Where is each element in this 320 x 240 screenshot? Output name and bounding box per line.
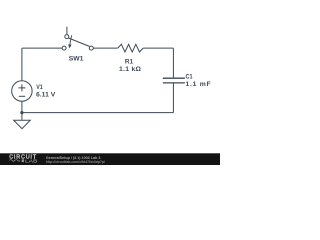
footer bar [0,153,220,165]
switch arrow head [68,44,72,48]
wire V1 bottom to junction [21,101,23,112]
CircuitLab logo wave [9,160,20,162]
svg-text:1.1 mF: 1.1 mF [186,81,211,88]
wire resistor to corner [143,47,173,49]
switch SW1 [62,27,93,50]
svg-text:LAB: LAB [25,158,37,163]
resistor R1 [118,44,143,52]
wire right vertical lower [172,83,174,113]
svg-text:R1: R1 [125,59,133,66]
wire left vertical [21,48,23,80]
voltage source V1 [12,81,32,101]
wire bottom horizontal [22,112,174,114]
svg-text:SW1: SW1 [69,56,84,63]
ground [14,113,31,129]
wire right vertical upper [172,48,174,78]
wire top-left horizontal [22,47,62,49]
wire switch to resistor [93,47,117,49]
node junction [20,111,23,114]
CircuitLab logo bolt icon [22,159,24,162]
svg-text:V1: V1 [36,84,43,91]
svg-text:6.11 V: 6.11 V [36,92,56,99]
svg-text:http://circuitlab.com/c9d476m3: http://circuitlab.com/c9d476m3dp7p/ [46,159,106,164]
svg-text:1.1 kΩ: 1.1 kΩ [119,66,142,73]
svg-text:C1: C1 [186,73,193,80]
capacitor C1 [163,78,185,83]
